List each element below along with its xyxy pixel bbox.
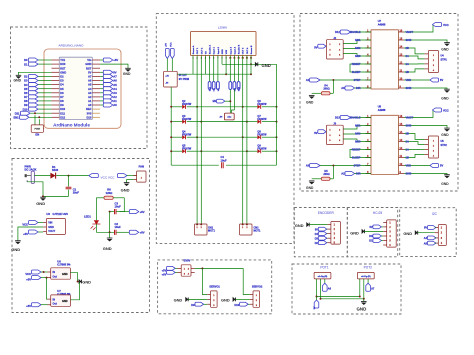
frame box i2c (400, 208, 457, 257)
ground GND servo1 (174, 297, 208, 303)
wire vcc to u7b (47, 278, 48, 300)
svg-text:A3: A3 (113, 91, 117, 95)
svg-text:Enable A: Enable A (209, 44, 212, 54)
wire pot1 pins (317, 279, 325, 299)
svg-text:MS3: MS3 (355, 140, 361, 144)
connector SERVO2 (250, 284, 263, 307)
connector CN1 MOT1 (195, 223, 216, 235)
netflag VCC pair (89, 174, 137, 180)
wire OUT3 (242, 55, 244, 224)
svg-text:SERVO1: SERVO1 (209, 284, 220, 288)
connector ENC1 (327, 222, 340, 245)
wire J3 MS1 (343, 126, 371, 130)
svg-text:EV3V: EV3V (184, 259, 191, 263)
jumper J5 EnA (208, 55, 211, 91)
svg-text:VCC: VCC (443, 109, 449, 113)
wire pot rail gnd (320, 298, 365, 300)
pin numbers U8 right (400, 115, 403, 174)
pin numbers U2 (192, 56, 252, 59)
svg-text:D4: D4 (60, 83, 64, 87)
wire J2 MS1 (343, 40, 371, 44)
port A0 (341, 86, 371, 90)
svg-text:Input 3: Input 3 (229, 46, 232, 54)
svg-text:A6: A6 (113, 79, 117, 83)
diode Q3 FR207W (171, 115, 197, 124)
svg-text:D9: D9 (60, 103, 64, 107)
svg-text:EN: EN (35, 133, 39, 137)
svg-text:GND: GND (406, 124, 412, 128)
svg-text:A5: A5 (88, 83, 92, 87)
svg-text:GND: GND (441, 97, 449, 101)
svg-text:RESET: RESET (352, 148, 361, 152)
svg-text:VIN: VIN (48, 222, 52, 225)
connector U5 STP2 (428, 136, 447, 158)
svg-text:10uF: 10uF (73, 191, 80, 195)
svg-text:A4988: A4988 (378, 108, 386, 112)
svg-text:LED1: LED1 (84, 215, 91, 219)
svg-text:Out: Out (53, 303, 57, 306)
diode Q6 FR207W (247, 100, 278, 109)
svg-text:Sense A: Sense A (192, 45, 195, 54)
svg-text:A4: A4 (88, 87, 92, 91)
fan connector FAN (133, 165, 146, 183)
junction C1 tap (68, 175, 70, 177)
pins U1 right stubs (92, 60, 100, 117)
pot POT1 (314, 265, 331, 279)
diode Q8 FR207W (247, 131, 278, 140)
svg-text:D5: D5 (60, 87, 64, 91)
svg-text:5V: 5V (314, 131, 317, 135)
svg-text:L298N: L298N (218, 26, 227, 30)
led LED1 (84, 215, 100, 233)
ground GND right of U1 (100, 64, 131, 76)
port A3 right (100, 91, 117, 95)
svg-text:A2: A2 (113, 95, 117, 99)
svg-text:5V: 5V (314, 45, 317, 49)
port VCC u6 (25, 270, 47, 276)
port D2 encoder (315, 241, 328, 245)
ic U2 L298N body (191, 32, 257, 56)
svg-text:VMOT: VMOT (406, 30, 414, 34)
port 5V J2 (314, 44, 326, 49)
svg-text:IN: IN (53, 298, 56, 301)
svg-text:Q4: Q4 (182, 131, 186, 134)
port D2 (24, 74, 51, 78)
svg-text:U8: U8 (378, 105, 382, 109)
pin names U2 vertical (192, 44, 253, 54)
svg-text:GND: GND (11, 247, 20, 252)
svg-text:IN: IN (53, 271, 56, 274)
svg-text:ARDUINO_NANO: ARDUINO_NANO (59, 43, 85, 47)
svg-text:Q3: Q3 (182, 115, 186, 118)
wire bottom rail (171, 164, 276, 166)
svg-text:JH: JH (219, 116, 222, 118)
port D10 (234, 302, 249, 307)
svg-text:MOT1: MOT1 (208, 230, 216, 233)
resistor R6 120 (96, 188, 124, 200)
svg-text:9V PWM: 9V PWM (179, 77, 189, 81)
svg-text:+5V: +5V (162, 268, 167, 272)
port D5 (24, 87, 51, 91)
wire flags to J4 (167, 59, 172, 72)
wire 2B U8 (404, 134, 428, 155)
port +5V u6 (26, 276, 47, 282)
svg-text:D11: D11 (60, 111, 65, 115)
switch EN (31, 125, 44, 137)
svg-text:GND: GND (406, 86, 412, 90)
ground GND encoder (295, 222, 328, 228)
svg-text:D12: D12 (60, 115, 65, 119)
svg-text:+5V: +5V (140, 210, 145, 214)
port D12 (335, 30, 371, 34)
port A0 right (100, 103, 117, 107)
svg-text:SLEEP: SLEEP (352, 70, 361, 74)
ground GND i2c (403, 230, 434, 236)
wire r6 right down (120, 198, 125, 212)
regulator U3 (43, 212, 68, 234)
diode Q7 FR207W (247, 115, 278, 124)
svg-text:5V: 5V (88, 70, 91, 74)
connector J1 DC jack (25, 171, 35, 183)
svg-text:U3: U3 (46, 212, 50, 216)
wire 1A U7 (404, 63, 424, 65)
svg-text:D13: D13 (335, 116, 340, 120)
svg-text:GND: GND (406, 38, 412, 42)
ic U7 body (371, 30, 399, 89)
pin numbers U7 right (400, 29, 403, 88)
svg-text:D7: D7 (60, 95, 64, 99)
svg-text:D8: D8 (60, 99, 64, 103)
wire gnd line (222, 63, 277, 65)
port VCC U8 (404, 108, 449, 118)
pin numbers U8 left (367, 115, 369, 174)
pin names U7 right (406, 30, 414, 90)
wire row Q5 middle (170, 150, 247, 152)
svg-text:uA-Dg-(R): uA-Dg-(R) (318, 275, 328, 278)
ground GND U7 pin15 (404, 40, 450, 51)
svg-text:Input 2: Input 2 (217, 46, 220, 54)
port +5V Vin (100, 58, 118, 62)
svg-text:MS2: MS2 (355, 132, 361, 136)
port A5 right (100, 83, 117, 87)
regulator U6 CJ7805 (48, 260, 72, 280)
svg-text:D5: D5 (24, 87, 28, 91)
svg-text:MS1: MS1 (355, 38, 361, 42)
wire 1B U8 (404, 154, 424, 157)
ground GND U7 pin9 (404, 88, 450, 101)
wire pin4 vs (204, 55, 206, 74)
port VCC u3 (22, 221, 43, 227)
wire to servo1 (202, 268, 207, 294)
svg-text:1A: 1A (406, 148, 409, 152)
svg-text:+5V: +5V (140, 231, 145, 235)
wire u6 gnd (70, 273, 78, 283)
svg-text:A3: A3 (88, 91, 92, 95)
wire 2B U7 (404, 48, 428, 69)
svg-text:D2: D2 (60, 75, 64, 79)
svg-text:STP2: STP2 (441, 144, 448, 147)
svg-text:MS2: MS2 (355, 46, 361, 50)
connector J3 (326, 123, 343, 145)
connector I2C1 (435, 225, 447, 246)
wire led bottom (96, 231, 114, 233)
svg-text:ENABLE: ENABLE (350, 116, 361, 120)
svg-text:STP1: STP1 (441, 58, 448, 61)
port D7 (24, 95, 51, 99)
svg-text:120Ω: 120Ω (106, 191, 113, 195)
netflag VCC vert (170, 42, 174, 59)
svg-text:A0: A0 (113, 103, 117, 107)
svg-text:SS33: SS33 (52, 169, 59, 172)
svg-text:ENABLE: ENABLE (350, 30, 361, 34)
svg-text:A7: A7 (113, 75, 117, 79)
svg-text:GND: GND (121, 188, 130, 193)
port +5V u3 (23, 230, 43, 236)
ground GND left of U1 (14, 72, 52, 82)
svg-text:2B: 2B (406, 46, 409, 50)
wire left bus (170, 87, 172, 165)
svg-text:+5V: +5V (166, 43, 168, 47)
pins U8 stubs (366, 118, 405, 174)
port D0 hc05 (369, 234, 383, 238)
svg-text:A4988: A4988 (378, 22, 386, 26)
svg-text:D3: D3 (24, 79, 28, 83)
svg-text:OUT 1: OUT 1 (197, 47, 199, 54)
svg-text:VDD: VDD (406, 78, 412, 82)
ground GND U8 pin15 (404, 126, 450, 137)
svg-text:DC JACK: DC JACK (25, 167, 37, 171)
svg-text:POT2: POT2 (364, 265, 373, 269)
svg-text:+5V: +5V (23, 232, 28, 236)
ground GND u3 (11, 227, 43, 252)
svg-text:2A: 2A (406, 140, 409, 144)
svg-text:GND: GND (14, 79, 22, 83)
resistor R5 200 (312, 166, 334, 181)
wire pin1 sense (192, 55, 194, 74)
svg-text:D6: D6 (24, 91, 28, 95)
wire 2A U8 (404, 142, 424, 145)
svg-text:+IN: +IN (165, 75, 169, 77)
svg-text:CJT1117-3V3: CJT1117-3V3 (53, 213, 69, 216)
svg-text:A6: A6 (88, 79, 92, 83)
port A3 (306, 164, 371, 168)
wire 1B U7 (404, 69, 424, 72)
svg-text:A0: A0 (88, 103, 92, 107)
diode Q5 FR207W (171, 145, 197, 154)
wire OUT4 (246, 55, 248, 224)
diode D1 SS33 (50, 165, 88, 179)
port D9 (191, 302, 207, 307)
port D3 encoder (315, 236, 328, 240)
frame box L298N section (156, 14, 294, 244)
jumper In4 (232, 55, 237, 113)
netflag +5V vert (165, 43, 169, 59)
frame box hc05 (347, 208, 397, 257)
ground GND 7805 (79, 279, 92, 285)
port +9V servo (162, 271, 178, 277)
svg-text:Enable B: Enable B (239, 44, 241, 54)
svg-text:+5V: +5V (113, 58, 118, 62)
svg-text:MS3: MS3 (355, 54, 361, 58)
svg-text:STEP: STEP (354, 78, 361, 82)
ground GND led (103, 232, 113, 251)
wire row Q2 middle (170, 106, 247, 108)
svg-text:GND: GND (103, 246, 112, 251)
svg-text:10uF: 10uF (221, 158, 227, 162)
svg-text:GND: GND (306, 186, 314, 190)
connector CN2 MOT2 (240, 223, 262, 235)
wire J3 MS3 (343, 139, 371, 142)
capacitor C1 10uF (66, 175, 80, 196)
svg-text:GND: GND (306, 100, 314, 104)
wire pin8 gnd (221, 55, 223, 64)
svg-text:Q2: Q2 (182, 100, 186, 103)
port D0 (24, 58, 51, 62)
port +5V c2 (129, 230, 144, 234)
wire row Q3 middle (170, 121, 247, 123)
wire OUT2 (200, 55, 202, 224)
svg-text:U7: U7 (378, 19, 382, 23)
frame box power section (12, 159, 150, 313)
svg-text:VSS: VSS (226, 49, 228, 54)
frame box Arduino section (11, 27, 148, 149)
svg-text:5V: 5V (440, 164, 443, 168)
svg-text:D10: D10 (60, 107, 65, 111)
svg-text:A1: A1 (88, 99, 92, 103)
svg-text:GND: GND (62, 300, 68, 303)
svg-text:GND: GND (85, 62, 91, 66)
regulator U7b CJ7805 (48, 289, 72, 306)
svg-text:200Ω: 200Ω (323, 173, 329, 176)
svg-text:DIR: DIR (356, 172, 361, 176)
port D6 (24, 91, 51, 95)
svg-text:DIR: DIR (356, 86, 361, 90)
pins U1 left stubs (52, 60, 60, 117)
svg-text:A3: A3 (306, 164, 310, 168)
frame box servo section (158, 260, 272, 314)
svg-text:MOT1: MOT1 (254, 230, 262, 233)
svg-text:RST: RST (86, 66, 92, 70)
jumper J7 In2 (217, 55, 220, 91)
svg-text:GND: GND (441, 133, 449, 137)
svg-text:VCC: VCC (171, 42, 173, 47)
port D3 (24, 79, 51, 83)
svg-text:VDD: VDD (406, 164, 412, 168)
wire right bus (276, 64, 278, 165)
frame box stepper section (300, 14, 458, 192)
wire row Q4 middle (170, 136, 247, 138)
port 5V i2c (424, 226, 436, 230)
frame box pots (292, 264, 401, 314)
wire pot2 pins (360, 279, 368, 299)
wire U7 reset-sleep (350, 64, 371, 72)
port 5V VDD U8 (404, 164, 443, 168)
svg-text:5V: 5V (369, 226, 372, 229)
svg-text:5V: 5V (315, 228, 318, 231)
port +5V c3 (129, 210, 144, 214)
port +5V u7b (26, 303, 47, 308)
connector J2 (326, 37, 343, 59)
pin names U1 right (85, 58, 91, 119)
port A5 i2c (424, 241, 436, 245)
wire J2 MS3 (343, 54, 371, 57)
svg-text:D11: D11 (15, 111, 20, 115)
svg-text:GND: GND (60, 70, 66, 74)
svg-text:REF: REF (86, 107, 92, 111)
wire OUT1 (196, 55, 198, 224)
svg-text:I2C: I2C (432, 212, 438, 216)
port D13 (335, 116, 371, 120)
svg-text:HC-05: HC-05 (373, 211, 382, 215)
svg-text:GND: GND (441, 47, 449, 51)
wire u7b gnd (70, 282, 79, 300)
svg-text:D9: D9 (24, 103, 28, 107)
svg-text:Out: Out (53, 276, 57, 279)
port +5V servo (162, 266, 178, 272)
port A1 right (100, 99, 117, 103)
svg-text:GND: GND (174, 298, 183, 303)
ground GND R4 (306, 95, 315, 104)
wire pin9 vss (225, 55, 227, 74)
port A2 right (100, 95, 117, 99)
port 5V hc05 (369, 225, 383, 229)
svg-text:GND: GND (403, 231, 412, 236)
port A6 right (100, 79, 117, 83)
wire c3 to c2 (109, 212, 111, 233)
port A4 right (100, 87, 117, 91)
svg-text:GND: GND (262, 63, 271, 68)
port D1 (24, 62, 51, 66)
svg-text:ENCODER: ENCODER (318, 211, 335, 215)
wire 2A U7 (404, 56, 424, 59)
connector J6 servo power (178, 265, 195, 276)
svg-text:+5V: +5V (26, 278, 31, 282)
svg-text:EN: EN (213, 99, 217, 103)
svg-text:2A: 2A (406, 54, 409, 58)
svg-text:5V: 5V (424, 227, 427, 230)
svg-text:5V: 5V (440, 78, 443, 82)
jumper J6 In1 (212, 55, 215, 91)
pin names U8 right (406, 116, 414, 176)
svg-text:D12: D12 (335, 30, 340, 34)
capacitor C4 10uF (221, 155, 227, 168)
svg-text:MS1: MS1 (355, 124, 361, 128)
svg-text:GND: GND (36, 201, 45, 206)
svg-text:GND: GND (82, 280, 91, 285)
wire servo power (195, 267, 244, 269)
port D11 (15, 111, 52, 115)
port A1 (306, 78, 371, 82)
port 5V J3 (314, 130, 326, 135)
svg-text:1A: 1A (406, 62, 409, 66)
svg-text:VOUT: VOUT (48, 230, 55, 233)
ground GND l298 (255, 62, 271, 68)
svg-text:5V: 5V (113, 71, 116, 75)
svg-text:OUT 2: OUT 2 (201, 47, 203, 54)
diode Q4 FR207W (171, 131, 197, 140)
svg-text:GND: GND (357, 306, 367, 311)
capacitor C2 10uF (115, 222, 130, 235)
wire J3 MS2 (343, 133, 371, 136)
svg-text:VCC VCC: VCC VCC (101, 175, 116, 179)
svg-text:GND: GND (222, 49, 224, 54)
pin numbers U7 left (367, 29, 369, 88)
svg-text:D0: D0 (24, 58, 28, 62)
port A4 i2c (424, 236, 436, 240)
svg-text:EnB: EnB (239, 87, 241, 92)
port A2 (341, 172, 371, 176)
svg-text:D7: D7 (24, 95, 28, 99)
